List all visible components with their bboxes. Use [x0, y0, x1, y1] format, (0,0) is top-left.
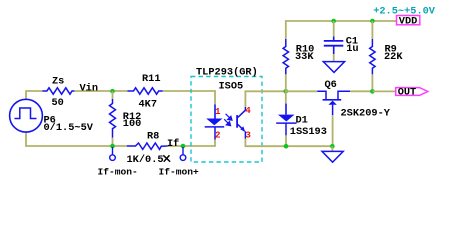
svg-text:If-mon+: If-mon+ — [159, 167, 200, 178]
port If-mon+ — [182, 147, 184, 155]
svg-text:0/1.5~5V: 0/1.5~5V — [44, 122, 94, 134]
svg-text:2: 2 — [215, 129, 221, 140]
node C1 top — [331, 19, 336, 24]
svg-text:D1: D1 — [296, 114, 308, 126]
svg-text:ISO5: ISO5 — [219, 80, 244, 92]
VDD rail — [286, 21, 397, 39]
svg-text:Q6: Q6 — [325, 79, 337, 91]
resistor R8 — [127, 143, 168, 149]
diode D1 — [285, 91, 287, 103]
svg-text:33K: 33K — [295, 51, 314, 63]
node gate/ground junction — [330, 144, 335, 149]
node If-mon- junction — [110, 144, 115, 149]
svg-text:50: 50 — [52, 97, 64, 109]
port If-mon- — [112, 147, 114, 155]
resistor R12 — [112, 91, 114, 99]
transistor Q6 2SK209 — [286, 90, 318, 92]
node collector/D1/R10/Q6 — [284, 89, 289, 94]
node R9 bottom / Q6 source — [370, 89, 375, 94]
wire Zs to R11 — [74, 90, 127, 92]
svg-text:TLP293(GR): TLP293(GR) — [196, 67, 258, 79]
svg-text:VDD: VDD — [399, 15, 418, 27]
pulse source P6 — [10, 99, 43, 132]
svg-text:1: 1 — [215, 106, 221, 117]
capacitor C1 — [333, 21, 335, 37]
ground under C1 — [323, 62, 344, 73]
svg-text:R11: R11 — [142, 73, 161, 85]
wire R11 to LED corner — [163, 91, 215, 105]
wire R8 to LED bottom — [168, 140, 215, 147]
svg-text:1K/0.5: 1K/0.5 — [127, 154, 164, 166]
svg-text:1u: 1u — [346, 43, 358, 55]
svg-text:100: 100 — [123, 118, 142, 130]
phototransistor of ISO5 — [236, 115, 238, 128]
wire to OUT — [372, 90, 395, 92]
svg-text:If: If — [167, 138, 179, 150]
node Vin — [110, 89, 115, 94]
resistor Zs — [42, 88, 74, 94]
OUT flag — [396, 88, 428, 96]
svg-text:Vin: Vin — [80, 83, 99, 95]
wire source bottom rail — [26, 132, 127, 146]
ground bottom right — [331, 146, 333, 151]
wire collector to node — [245, 91, 285, 107]
VDD flag — [397, 16, 420, 25]
svg-text:Zs: Zs — [52, 75, 64, 87]
svg-text:22K: 22K — [384, 51, 403, 63]
resistor R10 — [283, 39, 288, 74]
svg-text:2SK209-Y: 2SK209-Y — [341, 107, 391, 119]
wattage cross glyph — [164, 156, 170, 161]
resistor R9 — [371, 21, 373, 39]
svg-text:If-mon-: If-mon- — [98, 167, 138, 178]
node D1 bottom — [284, 144, 289, 149]
node R9 top — [370, 19, 375, 24]
resistor R11 — [128, 88, 163, 94]
wire source top to Zs — [26, 91, 42, 99]
light arrows — [224, 114, 232, 126]
svg-text:R8: R8 — [147, 131, 159, 143]
svg-text:1SS193: 1SS193 — [290, 126, 327, 138]
wire emitter to rail — [245, 139, 332, 147]
optocoupler ISO5 dashed box — [191, 77, 262, 163]
svg-text:OUT: OUT — [398, 87, 417, 99]
LED of ISO5 — [214, 105, 216, 120]
node If junction — [181, 144, 186, 149]
svg-text:4K7: 4K7 — [139, 99, 158, 111]
